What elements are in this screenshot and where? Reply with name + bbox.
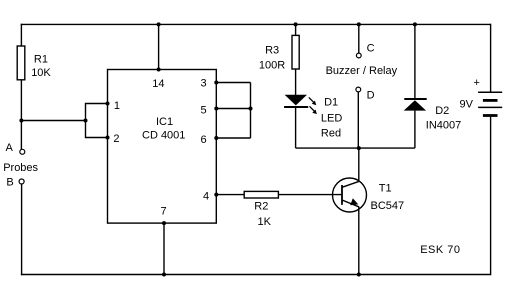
diode D2 cathode bar bbox=[404, 98, 426, 100]
wire LED to mid rail bbox=[295, 107, 297, 148]
svg-text:B: B bbox=[6, 176, 13, 188]
svg-text:LED: LED bbox=[321, 112, 342, 124]
node junction pin 5 bracket bbox=[249, 107, 253, 111]
svg-text:4: 4 bbox=[203, 190, 209, 202]
wire R1 to probe A bbox=[20, 80, 22, 150]
node pin 14 top rail bbox=[157, 22, 161, 26]
node pin 7 bbox=[162, 221, 166, 225]
node junction bracket feed bbox=[84, 119, 88, 123]
node D2 top rail bbox=[413, 22, 417, 26]
LED D1 light arrow 2 bbox=[310, 106, 315, 111]
node pin 7 rail bbox=[162, 273, 166, 277]
diode D2 triangle bbox=[404, 100, 426, 110]
wire to terminal C bbox=[358, 24, 360, 53]
svg-text:CD 4001: CD 4001 bbox=[142, 130, 185, 142]
svg-text:6: 6 bbox=[201, 134, 207, 146]
svg-text:T1: T1 bbox=[379, 183, 392, 195]
wire battery negative lead bbox=[490, 116, 492, 276]
wire bracket pins 3-5-6 bbox=[250, 83, 252, 139]
wire bracket pins 1-2 bbox=[86, 104, 108, 138]
svg-text:100R: 100R bbox=[259, 59, 285, 71]
wire D2 to mid rail bbox=[414, 111, 416, 149]
wire probe B drop bbox=[21, 184, 23, 275]
wire battery positive lead bbox=[490, 24, 492, 93]
svg-text:Red: Red bbox=[321, 127, 341, 139]
node pin 2 bbox=[106, 136, 110, 140]
node pin 3 bbox=[214, 81, 218, 85]
wire emitter down bbox=[358, 207, 360, 275]
wire pin 5 bbox=[216, 108, 250, 110]
resistor R3 bbox=[292, 35, 299, 69]
svg-text:9V: 9V bbox=[460, 99, 474, 111]
wire left drop to R1 bbox=[20, 24, 22, 46]
transistor T1 emitter diagonal bbox=[342, 200, 359, 207]
terminal C bbox=[356, 53, 361, 58]
wire top rail bbox=[21, 23, 491, 25]
svg-text:+: + bbox=[474, 77, 480, 89]
node mid junction collector bbox=[357, 146, 361, 150]
svg-text:D1: D1 bbox=[324, 97, 338, 109]
battery BT1 plate long 1 bbox=[478, 91, 502, 93]
node pin 14 bbox=[157, 68, 161, 72]
wire R2 to base bbox=[278, 194, 341, 196]
node junction left wire bbox=[19, 119, 23, 123]
wire mid horizontal LED-D junction-D2 bbox=[296, 147, 415, 149]
op-amp U1 IC1 CD4001 box bbox=[108, 70, 217, 224]
svg-text:A: A bbox=[6, 142, 14, 154]
wire pin 14 supply bbox=[158, 24, 160, 69]
wire branch to gate inputs bbox=[21, 120, 85, 122]
transistor T1 emitter arrowhead bbox=[350, 198, 358, 205]
LED D1 light arrow 1 bbox=[309, 97, 314, 102]
transistor Q1 T1 circle bbox=[333, 178, 367, 212]
svg-text:1K: 1K bbox=[258, 216, 272, 228]
transistor T1 collector diagonal bbox=[342, 181, 359, 187]
LED D1 light arrow 1 head bbox=[312, 101, 317, 106]
wire top rail to D2 bbox=[414, 24, 416, 100]
node pin 4 bbox=[214, 193, 218, 197]
resistor R1 bbox=[17, 46, 25, 80]
svg-text:5: 5 bbox=[201, 105, 207, 117]
svg-text:14: 14 bbox=[152, 78, 164, 90]
svg-text:2: 2 bbox=[113, 133, 119, 145]
svg-text:IC1: IC1 bbox=[156, 116, 173, 128]
svg-text:R1: R1 bbox=[34, 54, 48, 66]
node R3 top rail bbox=[294, 22, 298, 26]
wire R3 to LED bbox=[295, 69, 297, 95]
wire pin 4 to R2 bbox=[216, 194, 244, 196]
wire pin 6 bbox=[216, 137, 250, 139]
svg-text:ESK 70: ESK 70 bbox=[420, 244, 460, 256]
battery BT1 plate short 1 bbox=[483, 99, 498, 102]
node pin 1 bbox=[106, 102, 110, 106]
node C top rail bbox=[357, 22, 361, 26]
wire terminal D down bbox=[357, 92, 359, 148]
svg-text:IN4007: IN4007 bbox=[426, 120, 461, 132]
svg-text:C: C bbox=[367, 42, 375, 54]
terminal B bbox=[19, 179, 24, 184]
svg-text:D2: D2 bbox=[435, 105, 449, 117]
LED D1 light arrow 2 head bbox=[312, 110, 317, 115]
svg-text:7: 7 bbox=[161, 205, 167, 217]
svg-text:D: D bbox=[367, 89, 375, 101]
wire collector up bbox=[358, 148, 360, 181]
LED D1 triangle bbox=[285, 95, 307, 106]
node pin 6 bbox=[214, 136, 218, 140]
transistor T1 base bar bbox=[341, 185, 343, 205]
terminal A bbox=[20, 149, 25, 154]
node pin 5 bbox=[214, 107, 218, 111]
svg-text:BC547: BC547 bbox=[371, 200, 405, 212]
wire pin 7 ground bbox=[163, 223, 165, 274]
wire bottom rail bbox=[21, 274, 491, 276]
svg-text:3: 3 bbox=[201, 78, 207, 90]
wire top rail to R3 bbox=[295, 24, 297, 35]
svg-text:1: 1 bbox=[114, 100, 120, 112]
svg-text:R2: R2 bbox=[254, 201, 268, 213]
battery BT1 plate short 2 bbox=[483, 114, 498, 117]
LED D1 cathode bar bbox=[284, 106, 308, 108]
battery BT1 plate long 2 bbox=[478, 106, 502, 108]
node emitter rail bbox=[357, 273, 361, 277]
svg-text:R3: R3 bbox=[265, 45, 279, 57]
resistor R2 bbox=[244, 191, 278, 198]
terminal D bbox=[356, 87, 361, 92]
wire pin 3 bbox=[216, 82, 250, 84]
svg-text:Buzzer / Relay: Buzzer / Relay bbox=[326, 65, 398, 77]
svg-text:Probes: Probes bbox=[3, 162, 38, 174]
svg-text:10K: 10K bbox=[31, 67, 51, 79]
